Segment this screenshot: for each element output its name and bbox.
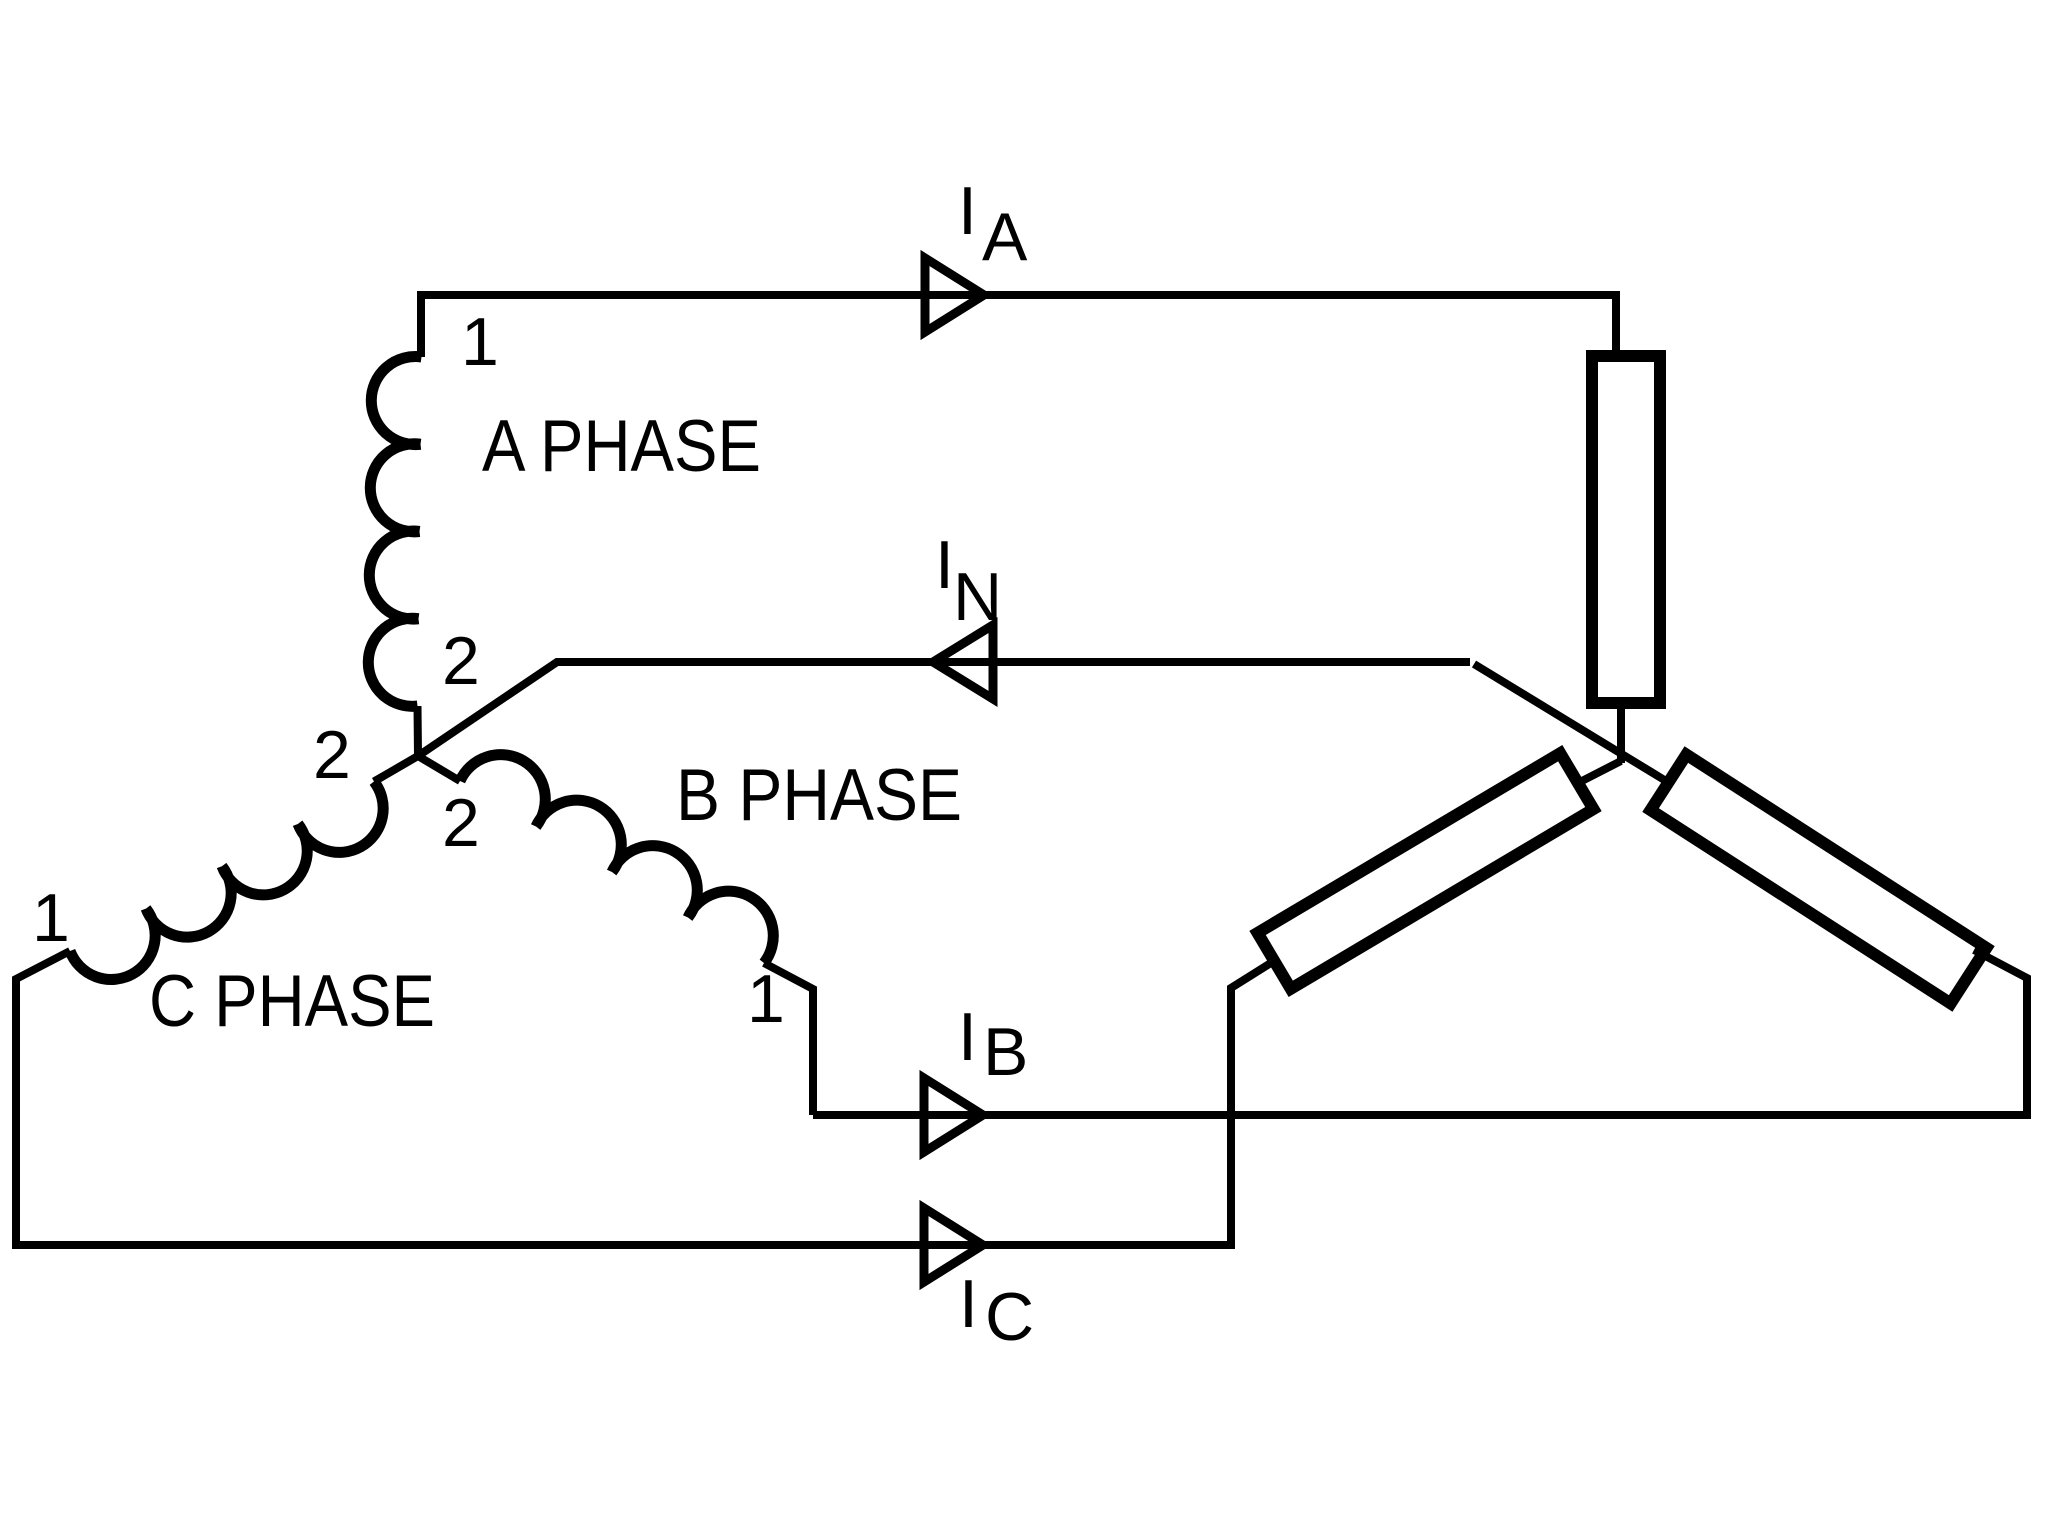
svg-text:I: I — [959, 1266, 978, 1342]
svg-text:A: A — [982, 199, 1028, 275]
resistor load RB (right) — [1651, 755, 1987, 1004]
wire B-1 terminal down to IB — [764, 963, 813, 1115]
svg-text:I: I — [958, 999, 977, 1075]
arrow IB — [924, 1078, 983, 1152]
wire stub B-2 from neutral node — [418, 756, 460, 781]
svg-text:2: 2 — [442, 623, 480, 699]
svg-text:B PHASE: B PHASE — [676, 755, 962, 836]
svg-text:C PHASE: C PHASE — [149, 961, 435, 1042]
svg-text:C: C — [985, 1279, 1034, 1355]
svg-text:B: B — [983, 1014, 1028, 1090]
svg-text:2: 2 — [313, 717, 351, 793]
wire A-2 stub to neutral node — [414, 706, 423, 756]
node load neutral stub to left resistor RC — [1578, 761, 1621, 783]
svg-text:N: N — [953, 559, 1002, 635]
inductor C phase coil — [70, 782, 383, 980]
inductor A phase coil — [368, 357, 421, 707]
arrow IC — [924, 1208, 983, 1282]
node N source neutral junction + wire IN horizontal — [418, 662, 1470, 756]
resistor load RC (left) — [1258, 753, 1594, 989]
wire IN diagonal into load neutral and RB end — [1474, 664, 1666, 781]
svg-text:1: 1 — [747, 961, 785, 1037]
arrow IA — [925, 258, 984, 332]
arrow IN — [933, 625, 993, 699]
wire IB to right load resistor — [813, 950, 2027, 1115]
svg-text:I: I — [935, 527, 954, 603]
wire IA top: from A phase terminal 1 to load resistor RA — [421, 295, 1616, 357]
svg-text:A PHASE: A PHASE — [482, 406, 761, 487]
wire IC from C phase terminal 1 to left load resistor — [16, 951, 1274, 1245]
svg-text:I: I — [958, 173, 977, 249]
svg-text:1: 1 — [461, 304, 499, 380]
svg-text:2: 2 — [442, 785, 480, 861]
wire RA bottom to load neutral node — [1617, 703, 1625, 763]
inductor B phase coil — [460, 755, 773, 963]
svg-text:1: 1 — [32, 880, 70, 956]
resistor load RA (top) — [1592, 356, 1660, 703]
wire stub C-2 from neutral node — [374, 756, 418, 782]
